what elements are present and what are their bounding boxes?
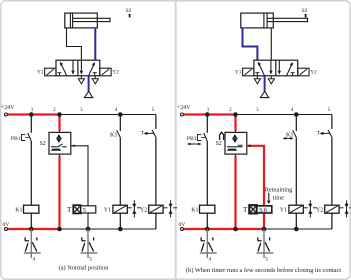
svg-text:Y1: Y1: [37, 70, 44, 76]
valve left position flow paths (panel a): [57, 60, 74, 76]
svg-text:5: 5: [89, 257, 92, 263]
svg-text:3.6: 3.6: [259, 207, 268, 214]
svg-text:2: 2: [229, 107, 232, 113]
svg-text:S2: S2: [40, 141, 46, 147]
contact cross-reference table (column 5, panel b): [257, 229, 274, 263]
contact cross-reference table (column 5, panel a): [81, 229, 98, 263]
solenoid Y1 on valve (panel b): [235, 68, 254, 76]
svg-text:5: 5: [328, 107, 331, 113]
relay coil K1 (panel a): [15, 205, 39, 213]
svg-text:PB1: PB1: [187, 136, 197, 142]
solenoid link indicator for Y1 (panel a): [127, 200, 141, 217]
svg-text:4: 4: [115, 107, 118, 113]
solenoid Y2 on valve (panel b): [298, 68, 317, 76]
exhaust port arrow at x=95.3 (panel a): [92, 76, 98, 84]
svg-text:4: 4: [209, 257, 212, 263]
wire column 2 top (panel b): [234, 115, 236, 131]
junction nodes (panel b): [205, 112, 299, 231]
svg-text:K1: K1: [286, 132, 294, 139]
solenoid link indicator for Y1 (panel b): [303, 200, 317, 217]
tube: cylinder right port to valve port 2 (panel b): [270, 28, 272, 60]
relay coil K1 (panel b): [191, 205, 215, 213]
compressed air source (panel b): [260, 76, 268, 98]
svg-text:+24V: +24V: [177, 105, 191, 111]
+24V supply rail (panel b): [177, 105, 332, 116]
wire column 3 bottom (panel b): [263, 213, 265, 229]
exhaust port arrow at x=81.4 (panel a): [78, 76, 84, 84]
reed switch S2 box (panel a): [40, 132, 71, 154]
reed switch S2 box (panel b): [216, 132, 247, 154]
wire column 1 (panel b): [206, 115, 208, 230]
svg-text:T: T: [141, 130, 145, 136]
svg-text:0V: 0V: [3, 222, 10, 228]
svg-text:Y2: Y2: [140, 208, 147, 214]
svg-text:5: 5: [152, 107, 155, 113]
valve solenoid coil Y1 (panel b): [280, 205, 304, 213]
5/2 directional valve V1 body (panel a): [56, 60, 100, 76]
live wire highlight 0V rail (panel b): [184, 228, 264, 230]
contact cross-reference table (column 4, panel a): [24, 229, 41, 263]
exhaust port arrow at x=95.3 (panel b): [268, 76, 274, 84]
live wire highlight +24V rail (panel b): [184, 113, 236, 115]
solenoid link indicator for Y2 (panel b): [339, 200, 351, 217]
svg-text:0V: 0V: [179, 222, 186, 228]
svg-text:5: 5: [83, 207, 86, 214]
actuation arrow on PB1 (panel b): [189, 143, 200, 145]
+24V supply rail (panel a): [1, 105, 156, 116]
wire column 1 (panel a): [30, 115, 32, 230]
solenoid Y2 on valve (panel a): [100, 68, 119, 76]
svg-text:time: time: [273, 195, 284, 202]
timer coil T (panel b): [243, 205, 272, 214]
contact cross-reference table (column 4, panel b): [200, 229, 217, 263]
svg-text:S2: S2: [126, 8, 132, 14]
circuit column numbers (panel a): [31, 107, 155, 113]
wire column 3 bottom (panel a): [87, 213, 89, 229]
svg-text:Y2: Y2: [316, 208, 323, 214]
wire column 2 top (panel a): [58, 115, 60, 131]
panel divider: [175, 1, 177, 279]
timer contact T (panel a): [141, 130, 156, 137]
wire column 2 bottom (panel a): [59, 154, 61, 156]
solenoid link indicator for Y2 (panel a): [163, 200, 177, 217]
wire S2 output to timer coil (panel a): [71, 144, 88, 205]
proximity sensor position S2 (panel b): [302, 8, 308, 17]
svg-text:Y1: Y1: [280, 208, 287, 214]
svg-text:(a) Normal position: (a) Normal position: [59, 265, 110, 272]
relay contact K1 (panel a): [110, 130, 120, 138]
timer contact T (panel b): [317, 130, 332, 137]
svg-text:Y2: Y2: [112, 70, 119, 76]
svg-text:3: 3: [80, 107, 83, 113]
svg-text:(b) When timer runs a few seco: (b) When timer runs a few seconds before…: [186, 267, 341, 274]
actuation arrow on S2 (panel b): [220, 132, 224, 140]
svg-text:Y2: Y2: [310, 70, 317, 76]
junction nodes (panel a): [29, 112, 123, 231]
push button PB1 (panel b): [187, 133, 207, 145]
svg-text:Y1: Y1: [235, 70, 242, 76]
svg-text:Remaining: Remaining: [265, 187, 293, 194]
svg-text:4: 4: [33, 257, 36, 263]
valve solenoid coil Y2 (panel a): [140, 205, 163, 213]
0V supply rail (panel b): [179, 222, 332, 230]
exhaust port arrow at x=81.4 (panel b): [254, 76, 260, 84]
circuit column numbers (panel b): [207, 107, 331, 113]
remaining time annotation (panel b): [265, 187, 293, 205]
wire column 4 (panel b): [295, 115, 297, 230]
wire column 4 (panel a): [119, 115, 121, 230]
svg-text:S2: S2: [302, 8, 308, 14]
valve left position flow paths (panel b): [255, 60, 272, 76]
proximity sensor position S2 (panel a): [126, 8, 132, 17]
cylinder A1 (panel a): [65, 13, 110, 28]
push button PB1 (panel a): [11, 133, 31, 142]
valve solenoid coil Y1 (panel a): [104, 205, 128, 213]
svg-text:T: T: [243, 206, 248, 214]
svg-text:Y1: Y1: [104, 208, 111, 214]
svg-text:S2: S2: [216, 141, 222, 147]
svg-text:K1: K1: [15, 208, 22, 214]
relay contact K1 (panel b): [283, 130, 297, 140]
valve right position flow paths (panel a): [80, 60, 97, 76]
svg-text:T: T: [67, 206, 72, 214]
wire column 5 (panel b): [331, 115, 333, 230]
switching arrow on K1 contact (panel b): [285, 137, 292, 139]
wire column 5 (panel a): [155, 115, 157, 230]
svg-text:K1: K1: [191, 208, 198, 214]
svg-text:5: 5: [265, 257, 268, 263]
svg-text:+24V: +24V: [1, 105, 15, 111]
solenoid Y1 on valve (panel a): [37, 68, 56, 76]
5/2 directional valve V1 body (panel b): [254, 60, 298, 76]
svg-text:4: 4: [291, 107, 294, 113]
svg-text:T: T: [317, 130, 321, 136]
wire S2 output to timer coil (panel b): [247, 144, 264, 205]
live wire highlight +24V rail (panel a): [8, 113, 60, 115]
timer coil T (panel a): [67, 205, 96, 214]
tube: cylinder left port to valve port 4 (panel b): [243, 28, 258, 60]
valve right position flow paths (panel b): [278, 60, 295, 76]
wire column 2 bottom (panel b): [235, 154, 237, 156]
svg-text:3: 3: [256, 107, 259, 113]
tube: cylinder left port to valve port 4 (panel a): [67, 28, 82, 60]
valve solenoid coil Y2 (panel b): [316, 205, 339, 213]
tube: cylinder right port to valve port 2 (panel a): [94, 28, 96, 60]
live wire highlight 0V rail (panel a): [8, 228, 60, 230]
compressed air source (panel a): [84, 76, 92, 98]
0V supply rail (panel a): [3, 222, 156, 230]
cylinder A1 (panel b): [241, 13, 308, 28]
svg-text:2: 2: [53, 107, 56, 113]
svg-text:PB1: PB1: [11, 136, 21, 142]
svg-text:K1: K1: [110, 132, 118, 139]
